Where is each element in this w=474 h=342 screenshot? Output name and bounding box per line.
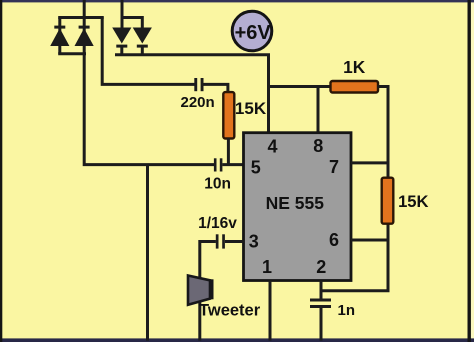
svg-text:NE 555: NE 555: [266, 193, 325, 213]
wire: from 1/16v cap left, down through tweeter to bottom rail: [200, 242, 216, 341]
wire: 1K right side down the right column to bottom horizontal joining pin 2: [321, 87, 388, 291]
capacitor 1/16v: [216, 234, 225, 248]
wire: diode pair 1 top rail: [58, 16, 103, 19]
diode D1 (left of pair 1, pointing up): [50, 26, 69, 46]
capacitor 220n: [194, 78, 203, 91]
right border: [468, 0, 471, 342]
capacitor 10n: [214, 158, 223, 171]
wire: feed from top into diode pair 1, down left column to pin5 wire, across to 10n cap: [84, 0, 214, 165]
wire: junction drop from pin5 wire to bottom rail: [146, 165, 149, 341]
wire: diode pair 2 top rail and right stub: [122, 18, 142, 29]
resistor 15K (left, vertical): [223, 92, 234, 138]
svg-text:8: 8: [313, 136, 323, 156]
wire: +6V supply rail across the top, down to IC pin 4: [115, 55, 269, 133]
svg-text:2: 2: [316, 257, 326, 277]
resistor 1K: [331, 81, 379, 93]
svg-text:Tweeter: Tweeter: [199, 302, 261, 320]
wire: IC pin 2 down to 1n capacitor node: [320, 281, 323, 299]
wire: IC pin 7 to right column: [351, 161, 388, 164]
svg-text:1/16v: 1/16v: [198, 215, 237, 232]
svg-text:15K: 15K: [398, 192, 428, 211]
diode D4 (right of pair 2, pointing down): [133, 28, 152, 48]
wire: IC pin 3 to 1/16v capacitor: [225, 240, 244, 243]
svg-text:1K: 1K: [343, 57, 366, 77]
svg-text:220n: 220n: [180, 94, 214, 111]
svg-text:3: 3: [249, 232, 259, 252]
wire: feed from top into diode pair 2: [121, 0, 124, 28]
speaker Tweeter symbol: [188, 276, 214, 305]
IC U1 NE 555 body: [244, 133, 352, 281]
svg-text:4: 4: [267, 136, 277, 156]
svg-text:1: 1: [262, 257, 272, 277]
svg-text:7: 7: [329, 157, 339, 177]
wire: IC pin 1 to bottom rail: [269, 281, 272, 341]
capacitor 1n: [310, 299, 331, 309]
svg-text:15K: 15K: [235, 99, 267, 118]
svg-text:6: 6: [329, 230, 339, 250]
svg-text:10n: 10n: [204, 176, 231, 193]
wire: right side of diode pair 1 loop down to 220n capacitor: [102, 17, 194, 85]
wire: 1n capacitor to bottom rail: [320, 308, 323, 341]
supply +6V circle: [232, 11, 272, 51]
wire: from pin4 column to 1K resistor, pin 8 branch: [269, 87, 332, 133]
right pale margin: [471, 0, 474, 342]
resistor 15K (right, vertical): [382, 178, 394, 224]
wire: 10n to IC pin 5: [222, 163, 244, 166]
svg-text:5: 5: [251, 158, 261, 178]
top border strip: [0, 0, 474, 2]
bottom border / ground rail: [0, 338, 474, 342]
svg-text:+6V: +6V: [235, 22, 272, 44]
wire: diode pair 1 left diode axis: [58, 18, 61, 54]
wire: IC pin 6 to right column: [351, 239, 388, 242]
wire: 220n to 15K (left) resistor top: [203, 84, 228, 93]
left border: [0, 0, 2, 342]
wire: diode pair 1 bottom rail: [58, 52, 86, 55]
diode D3 (left of pair 2, pointing down): [112, 28, 131, 48]
svg-text:1n: 1n: [338, 302, 356, 319]
diode D2 (right of pair 1, pointing up): [75, 26, 94, 46]
wire: diode pair 2 anode stubs to supply rail: [122, 45, 143, 55]
wire: 15K (left) bottom stub to pin 5 wire: [227, 138, 230, 165]
